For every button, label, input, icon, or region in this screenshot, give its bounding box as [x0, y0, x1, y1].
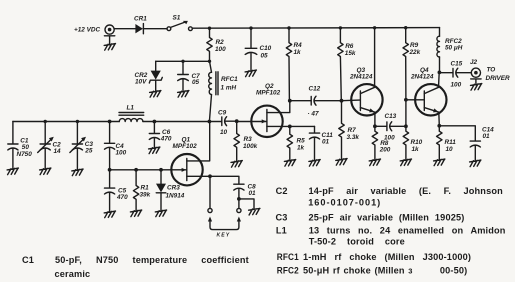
label TO DRIVER [486, 67, 511, 83]
svg-text:10: 10 [446, 146, 454, 153]
node dot C13/R10 [404, 124, 408, 128]
node dot C8 bottom [237, 197, 241, 201]
diode CR3 [156, 170, 185, 210]
node dot oscillator drain node [208, 120, 212, 124]
svg-text:100: 100 [215, 46, 226, 53]
svg-text:KEY: KEY [217, 233, 231, 239]
svg-text:· 47: · 47 [308, 111, 319, 118]
rf choke RFC2 [437, 28, 463, 73]
resistor R5 [287, 126, 305, 159]
node dot rail/Q3 collector [373, 26, 376, 29]
svg-text:01: 01 [249, 190, 257, 197]
ground (C5) [104, 211, 115, 218]
capacitor C14 [470, 127, 494, 161]
ground (R10) [400, 159, 411, 166]
capacitor C10 [245, 28, 271, 70]
connector J2 [470, 59, 481, 84]
wire: base node to Q4 [406, 99, 424, 101]
node dot rail/R9 [404, 26, 407, 29]
svg-text:15k: 15k [345, 50, 356, 57]
svg-text:1k: 1k [412, 146, 420, 153]
ground (C7) [178, 91, 189, 98]
svg-text:RFC1: RFC1 [221, 76, 238, 83]
svg-text:C15: C15 [451, 61, 463, 68]
svg-text:L1: L1 [127, 105, 135, 112]
parts list: C1 note [22, 255, 249, 279]
wire: regulated node row [156, 60, 210, 62]
wire: gate row [110, 169, 186, 171]
wire: C8 bottom to ground [239, 199, 254, 209]
svg-text:1k: 1k [294, 49, 302, 56]
wire J1 to CR1 [114, 28, 135, 30]
svg-text:25-pF air variable (Millen 190: 25-pF air variable (Millen 19025) [309, 212, 465, 222]
wire: Q3 collector to rail [374, 28, 376, 88]
svg-text:DRIVER: DRIVER [486, 75, 511, 82]
key arrows and bracket [208, 217, 241, 230]
svg-text:50 μH: 50 μH [445, 45, 463, 52]
capacitor C9 [209, 110, 236, 137]
node dot Q3 base [340, 99, 344, 103]
svg-text:1-mH rf choke (Millen J300-100: 1-mH rf choke (Millen J300-1000) [303, 252, 471, 262]
node dot C4/L1 [108, 120, 112, 124]
parts list: L1 note [276, 225, 506, 246]
wire: tank rail right of L1 [143, 121, 210, 123]
svg-text:R2: R2 [216, 39, 225, 46]
parts list: C3 note [276, 212, 465, 222]
svg-text:10: 10 [220, 129, 228, 136]
node dot C6 top [153, 120, 157, 124]
wire: Q3 emitter down [374, 112, 376, 126]
svg-text:50-μH rf choke (Millen 3: 50-μH rf choke (Millen 3 [303, 265, 413, 275]
ground (C3) [72, 169, 83, 176]
svg-text:01: 01 [483, 133, 491, 140]
ground (C10) [245, 70, 256, 77]
rf choke RFC1 [209, 61, 238, 121]
node dot CR3 top [159, 168, 163, 172]
svg-text:MPF102: MPF102 [256, 90, 281, 97]
node dot Q3 emitter row [373, 124, 377, 128]
transistor Q3 [349, 67, 383, 116]
ground (C14) [470, 160, 481, 167]
svg-text:2N4124: 2N4124 [349, 74, 373, 81]
svg-text:1 mH: 1 mH [221, 85, 237, 92]
capacitor C7 [178, 61, 200, 90]
svg-text:25: 25 [84, 148, 93, 155]
svg-text:13 turns no. 24 enamelled on A: 13 turns no. 24 enamelled on Amidon [309, 225, 506, 235]
svg-text:R5: R5 [297, 138, 306, 145]
svg-text:R9: R9 [410, 42, 419, 49]
capacitor C11 [309, 126, 333, 159]
resistor R11 [437, 126, 457, 159]
svg-text:R1: R1 [141, 185, 150, 192]
node dot Q2 drain / C12 [288, 99, 292, 103]
ground (C11) [309, 160, 320, 167]
svg-text:TO: TO [487, 67, 496, 74]
node dot Q2 source row [288, 125, 292, 129]
ground (CR2) [150, 91, 161, 98]
svg-text:50: 50 [22, 144, 30, 151]
ground (R5) [284, 160, 295, 167]
ground (C6) [149, 147, 160, 154]
svg-text:R4: R4 [294, 42, 303, 49]
capacitor C13 [384, 113, 406, 141]
wire: +12V top rail [192, 27, 439, 30]
wire: Q4 collector [438, 72, 441, 87]
svg-text:+12 VDC: +12 VDC [74, 27, 100, 34]
node dot rail/C10 [249, 26, 252, 29]
node dot C4/C5 [108, 168, 112, 172]
wire: collector node to C15 [439, 72, 452, 74]
parts list: RFC1 note [277, 252, 471, 262]
svg-text:R3: R3 [244, 136, 253, 143]
switch S1 [167, 15, 192, 31]
resistor R6 [338, 28, 356, 101]
svg-text:RFC2: RFC2 [277, 265, 299, 275]
wire: emitter row to C13 [375, 125, 387, 127]
wire: tank rail left [13, 121, 119, 123]
svg-text:C9: C9 [218, 110, 227, 117]
node dot Q4 base [404, 98, 408, 102]
svg-text:1k: 1k [297, 145, 305, 152]
svg-text:100k: 100k [243, 143, 258, 150]
svg-text:39k: 39k [140, 192, 151, 199]
capacitor C4 [105, 122, 127, 170]
wire: drain node to C12 [290, 100, 311, 102]
wire: source row to C8 [210, 176, 239, 184]
node dot C3 top [76, 120, 79, 123]
svg-text:C10: C10 [260, 45, 272, 52]
node dot Q4 collector / C15 [438, 71, 442, 75]
svg-text:160-0107-001): 160-0107-001) [308, 197, 380, 207]
ground (C8) [249, 208, 260, 215]
svg-text:MPF102: MPF102 [173, 143, 198, 150]
resistor R4 [286, 28, 302, 101]
svg-text:200: 200 [379, 147, 391, 154]
variable capacitor C2 [38, 122, 61, 169]
svg-text:05: 05 [261, 53, 269, 60]
svg-text:CR1: CR1 [134, 16, 147, 23]
svg-text:RFC1: RFC1 [277, 252, 299, 262]
wire: C9 node to Q2 gate [237, 121, 266, 123]
svg-text:10V: 10V [135, 79, 147, 86]
node dot C2 top [44, 120, 47, 123]
wire: Q4 emitter down [438, 112, 441, 126]
ground (J2) [471, 84, 482, 91]
svg-text:2N4124: 2N4124 [410, 74, 434, 81]
svg-text:C1: C1 [22, 255, 34, 265]
ground (R11) [434, 159, 445, 166]
svg-text:R10: R10 [411, 139, 423, 146]
svg-text:C3: C3 [276, 212, 288, 222]
svg-text:05: 05 [192, 79, 200, 86]
ground (R8) [369, 159, 380, 166]
svg-text:N750: N750 [17, 151, 33, 158]
resistor R10 [403, 126, 422, 159]
capacitor C15 [451, 61, 472, 89]
wire: emitter row to C14 [439, 126, 475, 141]
ground (under J1) [104, 44, 115, 51]
node dot Q4 emitter row [437, 124, 441, 128]
capacitor C12 [308, 86, 342, 118]
transistor Q4 [410, 67, 446, 116]
resistor R8 [372, 126, 391, 159]
svg-text:T-50-2 toroid core: T-50-2 toroid core [309, 236, 405, 246]
ground (R3) [231, 161, 242, 168]
svg-text:14: 14 [54, 148, 62, 155]
svg-text:14-pF air variable (E. F. John: 14-pF air variable (E. F. Johnson [309, 186, 504, 196]
capacitor C5 [105, 170, 129, 211]
zener diode CR2 [135, 61, 163, 90]
ground (CR3) [155, 210, 166, 217]
ground (R1) [130, 210, 141, 217]
resistor R3 [234, 121, 258, 160]
svg-text:C2: C2 [276, 186, 288, 196]
ground (R7) [336, 159, 347, 166]
svg-text:R11: R11 [445, 139, 457, 146]
node dot rail/R2 [208, 27, 211, 30]
resistor R2 [207, 28, 226, 61]
wire: source row to C11 [290, 125, 315, 127]
node dot rail/R6 [339, 26, 342, 29]
variable capacitor C3 [70, 122, 94, 170]
svg-text:22k: 22k [409, 49, 421, 56]
wire CR1 to S1 [143, 28, 167, 30]
svg-text:CR3: CR3 [167, 185, 180, 192]
resistor R1 39k [133, 170, 150, 210]
svg-text:3.3k: 3.3k [347, 134, 360, 141]
svg-text:1N914: 1N914 [166, 193, 185, 200]
svg-text:100: 100 [384, 134, 395, 141]
node dot rail/R4 [287, 26, 290, 29]
svg-text:J2: J2 [470, 59, 478, 66]
capacitor C6 [149, 122, 172, 148]
svg-text:C12: C12 [309, 86, 321, 93]
svg-text:100: 100 [116, 150, 127, 157]
svg-text:L1: L1 [276, 225, 287, 235]
capacitor C8 [234, 184, 256, 199]
svg-text:R7: R7 [348, 127, 357, 134]
parts list: C2 note [276, 186, 503, 207]
svg-text:470: 470 [160, 136, 172, 143]
key jack terminals [208, 176, 241, 212]
ground (C1) [7, 168, 18, 175]
node dot C7 top [181, 60, 184, 63]
svg-text:S1: S1 [173, 15, 181, 22]
wire: base node to Q3 [342, 99, 360, 102]
svg-text:100: 100 [451, 82, 462, 89]
resistor R9 [403, 28, 421, 100]
inductor L1 [119, 105, 144, 122]
node dot C9/R3 [235, 119, 239, 123]
wire: base node down to C13 row [405, 100, 407, 127]
parts list: RFC2 note [277, 265, 468, 275]
diode CR1 [134, 16, 147, 34]
svg-text:50-pF, N750 temperature coeffi: 50-pF, N750 temperature coefficient [55, 255, 249, 265]
svg-text:00-50): 00-50) [440, 265, 467, 275]
node dot R2/RFC1 [208, 60, 211, 63]
svg-text:01: 01 [322, 139, 330, 146]
ground (C2) [40, 168, 51, 175]
svg-text:ceramic: ceramic [55, 269, 91, 279]
node dot Q1 source [208, 174, 212, 178]
node: +12V input terminal J1 [104, 25, 114, 44]
svg-text:C13: C13 [385, 113, 397, 120]
transistor Q2 [251, 83, 289, 137]
svg-text:470: 470 [116, 194, 128, 201]
transistor Q1 [171, 122, 210, 186]
node dot R1 top [134, 168, 138, 172]
svg-text:R6: R6 [345, 43, 354, 50]
resistor R7 [339, 101, 360, 159]
capacitor C1 [8, 122, 32, 169]
